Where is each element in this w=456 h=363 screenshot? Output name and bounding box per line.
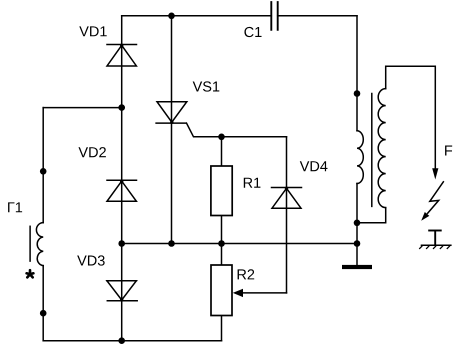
wire VS1 gate to node — [187, 123, 287, 137]
wire generator branch horizontal — [43, 107, 122, 109]
label VD2 — [78, 147, 105, 157]
junction node top bus / VS1 — [168, 13, 175, 20]
wire bottom bus — [43, 340, 221, 342]
earth electrode symbol — [419, 231, 451, 249]
label VD4 — [300, 161, 328, 171]
wire VD4 column — [286, 137, 288, 293]
label R2 — [238, 269, 255, 279]
diode VD2 — [107, 179, 137, 201]
wire left diode column VD1-VD2-VD3 — [121, 16, 123, 341]
junction node generator wire upper terminal — [40, 168, 47, 175]
junction node primary top terminal — [354, 90, 361, 97]
wire R1 top lead — [221, 137, 223, 166]
wire generator column upper — [42, 108, 44, 223]
junction node diode column / bottom bus — [118, 337, 125, 344]
wire VS1 column — [171, 16, 173, 244]
junction node windings common — [354, 220, 361, 227]
wire R2 top lead — [221, 244, 223, 266]
generator G1 core bar — [29, 226, 31, 261]
label R1 — [244, 178, 261, 188]
label G1 — [8, 202, 22, 212]
spark discharge lightning arrow — [427, 181, 444, 214]
junction node middle bus / diode column — [118, 240, 125, 247]
wire generator column lower — [42, 266, 44, 341]
wire R2 wiper horizontal — [243, 292, 287, 294]
diode VD3 (points down) — [107, 281, 137, 302]
junction node gate / R1 — [218, 134, 225, 141]
junction node middle bus / ground column — [354, 240, 361, 247]
wire right column lower segment — [356, 184, 358, 265]
transformer T1 core — [371, 94, 373, 207]
ground chassis bar — [342, 265, 372, 269]
junction node middle bus / VS1 cathode — [168, 240, 175, 247]
wire right column (C1 right to ground) upper segment — [356, 16, 358, 131]
generator G1 winding — [36, 223, 43, 266]
wire secondary bottom to common node — [357, 208, 386, 223]
junction node generator branch / diode column — [118, 104, 125, 111]
transformer T1 primary winding — [357, 131, 363, 184]
wire middle bus — [122, 243, 357, 245]
polarity asterisk mark — [27, 270, 34, 277]
wire top bus right segment — [278, 15, 357, 17]
lightning arrowhead — [421, 212, 429, 221]
junction node generator wire lower terminal — [40, 310, 47, 317]
label VS1 — [193, 81, 220, 91]
arrowhead of spark output line — [432, 168, 438, 179]
diode VD1 — [107, 44, 137, 66]
label C1 — [244, 27, 261, 37]
label F — [445, 146, 452, 156]
wire secondary top to spark arrow — [386, 66, 436, 171]
thyristor VS1 (points down) — [156, 102, 187, 124]
resistor R2 — [211, 265, 232, 316]
wire top bus left segment — [122, 15, 272, 17]
capacitor C1 plates — [271, 2, 277, 30]
transformer T1 secondary winding — [378, 89, 386, 208]
R2 wiper arrowhead — [233, 289, 243, 297]
label VD3 — [77, 255, 105, 265]
wire R2 bottom to bottom bus — [221, 316, 223, 341]
resistor R1 — [211, 166, 232, 216]
wire R1 bottom lead — [221, 216, 223, 244]
label VD1 — [79, 26, 106, 36]
diode VD4 — [272, 187, 302, 209]
junction node middle bus / R1-R2 — [218, 240, 225, 247]
